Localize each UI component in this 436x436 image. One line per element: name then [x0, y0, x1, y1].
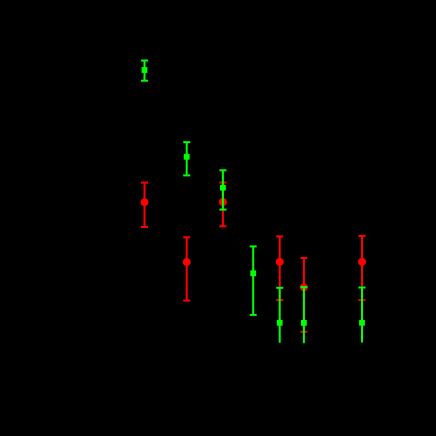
red data point R6 error bar — [359, 236, 366, 300]
red data point R5 error bar — [300, 258, 307, 332]
green data point G6 marker — [301, 320, 307, 326]
green data point G3 error bar — [219, 170, 226, 209]
green data point G3 marker — [220, 185, 226, 191]
green data point G2 error bar — [183, 142, 190, 175]
red data point R3 error bar — [219, 183, 226, 227]
green data point G5 marker — [277, 320, 283, 326]
green data point G6 error bar (bottom clipped) — [300, 287, 307, 343]
red data point R6 marker — [358, 258, 366, 266]
red data point R2 error bar — [183, 237, 190, 300]
red data point R2 marker — [183, 258, 191, 266]
red data point R3 marker — [219, 198, 227, 206]
red data point R1 error bar — [141, 183, 148, 227]
green data point G4 marker — [250, 270, 256, 276]
green data point G5 error bar (bottom clipped) — [276, 288, 283, 343]
red data point R5 marker — [300, 283, 308, 291]
red data point R1 marker — [141, 198, 149, 206]
green data point G2 marker — [184, 154, 190, 160]
red data point R4 error bar — [276, 236, 283, 300]
green data point G7 marker — [359, 320, 365, 326]
green data point G1 marker — [142, 67, 148, 73]
red data point R4 marker — [276, 258, 284, 266]
green data point G7 error bar (bottom clipped) — [359, 288, 366, 343]
green data point G1 error bar — [141, 61, 148, 81]
green data point G4 error bar — [250, 246, 257, 315]
